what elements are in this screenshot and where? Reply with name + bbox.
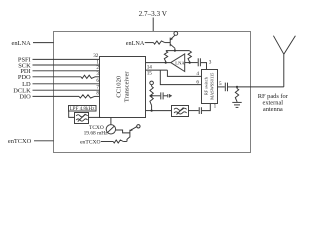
wire junction to capacitor [152, 95, 161, 97]
junction antenna node [236, 86, 238, 88]
svg-text:19.68 mHz: 19.68 mHz [84, 130, 109, 136]
terminal pad PA [150, 81, 154, 85]
wire pad to inductor [151, 85, 153, 87]
capacitor C pa2 [168, 94, 172, 97]
svg-text:15: 15 [147, 71, 153, 77]
svg-text:3: 3 [96, 71, 99, 77]
resistor R bias right [188, 51, 191, 63]
node enLNA label (inner) [126, 40, 145, 47]
node enTCXO label (left) [8, 138, 32, 145]
svg-text:4: 4 [196, 71, 199, 77]
wire enLNA [33, 42, 54, 44]
node PSFI label [18, 57, 31, 64]
wire Q2 base to resistor [123, 141, 127, 143]
junction rail resistor left on RX line [165, 62, 167, 64]
pin 5 (switch) [219, 81, 222, 87]
pin 6 (switch) [196, 79, 199, 85]
node SCK label [18, 62, 31, 69]
pin 15 [147, 71, 153, 77]
junction rail resistor right on RX line [189, 62, 191, 64]
svg-text:RF switch: RF switch [203, 76, 208, 95]
node DIO label [19, 94, 31, 101]
wire SCK to pin 1 [33, 64, 100, 66]
wire resistor to Q1 base [165, 42, 170, 44]
node PDO label [18, 74, 31, 81]
filter FL1 label LPF 4.8 kHz [69, 106, 97, 113]
node PDI label [20, 68, 30, 75]
wire CC1020 to TCXO [110, 118, 112, 125]
wire PDO to pin 3 [33, 76, 100, 78]
inductor L pa [150, 86, 153, 105]
wire filter to capacitor [188, 110, 198, 112]
wire node to TX filter [152, 110, 172, 112]
transistor Q1 (PNP, LNA supply switch) [170, 35, 175, 50]
resistor on DIO line [79, 95, 95, 98]
wire LNA input to capacitor [185, 62, 198, 64]
antenna [273, 36, 295, 87]
pin 1 (switch bottom) [214, 104, 217, 110]
wire RF feed to pads [237, 86, 284, 88]
pin 7 [96, 85, 99, 91]
wire supply to board [152, 18, 154, 32]
capacitor C ant [225, 83, 227, 92]
node enTCXO label (inner) [80, 140, 101, 146]
svg-text:DIO: DIO [19, 94, 31, 101]
node LD label [22, 81, 31, 88]
transistor Q2 (PNP, TCXO supply switch) [127, 127, 137, 142]
wire capacitor to antenna node [228, 86, 237, 88]
capacitor C tx [199, 107, 201, 114]
node DCLK label [13, 88, 31, 95]
svg-text:LNA: LNA [175, 61, 185, 66]
svg-text:enLNA: enLNA [126, 40, 145, 47]
pin 3 (switch) [209, 59, 212, 65]
svg-text:8: 8 [96, 91, 99, 97]
pin 4 (switch) [196, 71, 199, 77]
junction on inductor [151, 95, 153, 97]
capacitor C rx [198, 58, 200, 66]
svg-text:2.7–3.3 V: 2.7–3.3 V [139, 10, 168, 18]
pin 14 [147, 64, 153, 70]
power net 2.7-3.3 V label [139, 10, 168, 18]
node RF pads label [258, 93, 289, 113]
pin 2 [96, 65, 99, 71]
wire capacitor to switch pin 3 [201, 63, 207, 70]
wire branch to switch pin 4 [167, 70, 201, 76]
wire enTCXO [34, 140, 54, 142]
pin 6 [96, 78, 99, 84]
filter FL2 TX low-pass [172, 106, 189, 117]
terminal pad for Q2 emitter [137, 125, 140, 128]
wire pin 14 to LNA output [146, 62, 171, 64]
wire capacitor to switch pin 2 [202, 103, 210, 110]
wire TCXO to Q2 collector [116, 130, 130, 133]
junction Q1 collector to rail [174, 50, 176, 52]
pin 32 [93, 53, 99, 59]
IC U1 CC1020 transceiver [100, 57, 146, 118]
wire branch to switch pin 6 [160, 70, 202, 85]
wire PDI to pin 2 [33, 70, 100, 72]
svg-text:antenna: antenna [263, 106, 283, 113]
wire to capacitor C pa2 [164, 95, 168, 97]
junction PA node [151, 110, 153, 112]
svg-text:5: 5 [219, 81, 222, 87]
resistor R bias left [164, 51, 167, 63]
svg-text:14: 14 [147, 64, 153, 70]
resistor R enTCXO [113, 140, 123, 143]
op-amp LNA [171, 54, 186, 72]
svg-text:PDO: PDO [18, 74, 31, 81]
svg-text:MASWSS0115: MASWSS0115 [209, 72, 214, 100]
inductor L shunt [235, 87, 238, 102]
wire DCLK to pin 7 [33, 89, 100, 91]
svg-text:LPF 4.8kHz: LPF 4.8kHz [70, 106, 96, 112]
wire label box to filter input [69, 111, 75, 117]
wire pin 5 to antenna capacitor [217, 86, 224, 88]
wire pin 15 [146, 69, 168, 71]
pin 3 [96, 71, 99, 77]
wire filter to CC1020 [89, 116, 101, 118]
svg-text:6: 6 [96, 78, 99, 84]
wire DIO to pin 8 [33, 95, 100, 97]
svg-text:enTCXO: enTCXO [8, 138, 32, 145]
svg-text:3: 3 [209, 59, 212, 65]
svg-text:CC1020: CC1020 [116, 75, 123, 98]
pin 1 [96, 59, 99, 65]
svg-text:enLNA: enLNA [12, 40, 32, 47]
board outline (outer box) [54, 32, 251, 153]
wire LD to pin 6 [33, 83, 100, 85]
svg-text:enTCXO: enTCXO [80, 140, 101, 146]
wire node to CC1020 [146, 110, 152, 112]
node enLNA label (left) [12, 40, 32, 47]
oscillator X1 TCXO [106, 125, 115, 134]
wire LNA supply rail [166, 50, 190, 52]
resistor R enLNA base [154, 41, 165, 44]
svg-text:32: 32 [93, 53, 99, 59]
filter FL1 symbol [75, 113, 89, 124]
svg-text:1: 1 [214, 104, 217, 110]
wire PSFI to pin 32 [33, 58, 100, 60]
ground [232, 102, 241, 108]
capacitor C pa1 [161, 92, 163, 99]
pin 8 [96, 91, 99, 97]
wire inductor bottom [151, 105, 153, 110]
IC U2 RF switch [202, 70, 218, 104]
node TCXO label [84, 125, 109, 136]
wire enLNA to resistor [145, 42, 154, 44]
wire resistor to enTCXO label [101, 141, 113, 143]
svg-text:6: 6 [196, 79, 199, 85]
terminal pad for Q1 emitter [174, 32, 178, 36]
svg-text:Transceiver: Transceiver [124, 71, 131, 103]
resistor on PDO line [81, 75, 95, 78]
